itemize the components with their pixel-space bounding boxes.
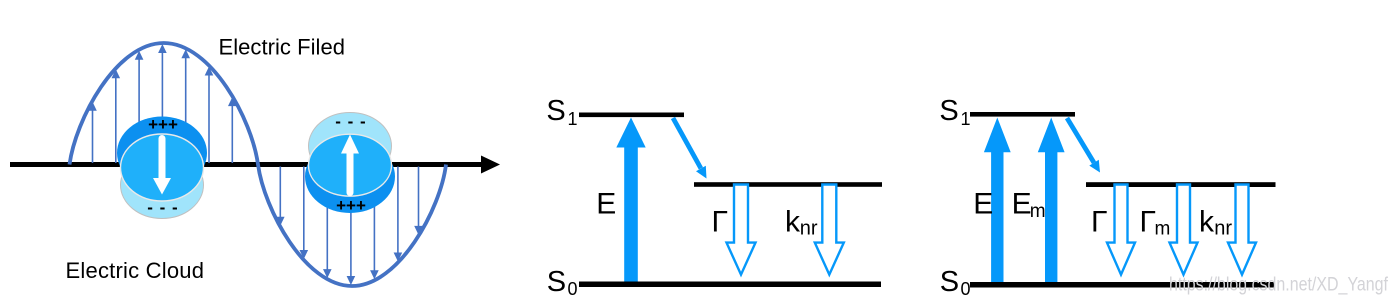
- svg-text:- - -: - - -: [335, 112, 366, 131]
- svg-text:m: m: [1155, 219, 1171, 240]
- svg-text:E: E: [973, 187, 993, 220]
- svg-text:S: S: [546, 95, 565, 127]
- svg-text:Electric Cloud: Electric Cloud: [66, 258, 205, 283]
- svg-text:nr: nr: [800, 218, 818, 240]
- svg-text:Γ: Γ: [1091, 205, 1108, 238]
- svg-text:1: 1: [568, 109, 578, 129]
- svg-text:https://blog.csdn.net/XD_Yangf: https://blog.csdn.net/XD_Yangf: [1169, 274, 1388, 296]
- svg-text:E: E: [596, 187, 616, 220]
- svg-text:S: S: [939, 95, 958, 127]
- svg-text:k: k: [785, 205, 801, 238]
- svg-text:k: k: [1199, 205, 1215, 238]
- svg-text:Electric Filed: Electric Filed: [219, 35, 346, 60]
- svg-text:m: m: [1030, 201, 1046, 222]
- svg-text:- - -: - - -: [147, 198, 178, 217]
- svg-text:nr: nr: [1214, 218, 1232, 240]
- svg-text:0: 0: [568, 279, 578, 299]
- svg-text:S: S: [940, 266, 959, 298]
- svg-text:Γ: Γ: [712, 205, 729, 238]
- svg-text:E: E: [1012, 187, 1032, 220]
- svg-text:1: 1: [961, 109, 971, 129]
- svg-text:+++: +++: [336, 196, 366, 215]
- svg-text:0: 0: [961, 279, 971, 299]
- svg-text:+++: +++: [148, 115, 178, 134]
- svg-text:S: S: [547, 266, 566, 298]
